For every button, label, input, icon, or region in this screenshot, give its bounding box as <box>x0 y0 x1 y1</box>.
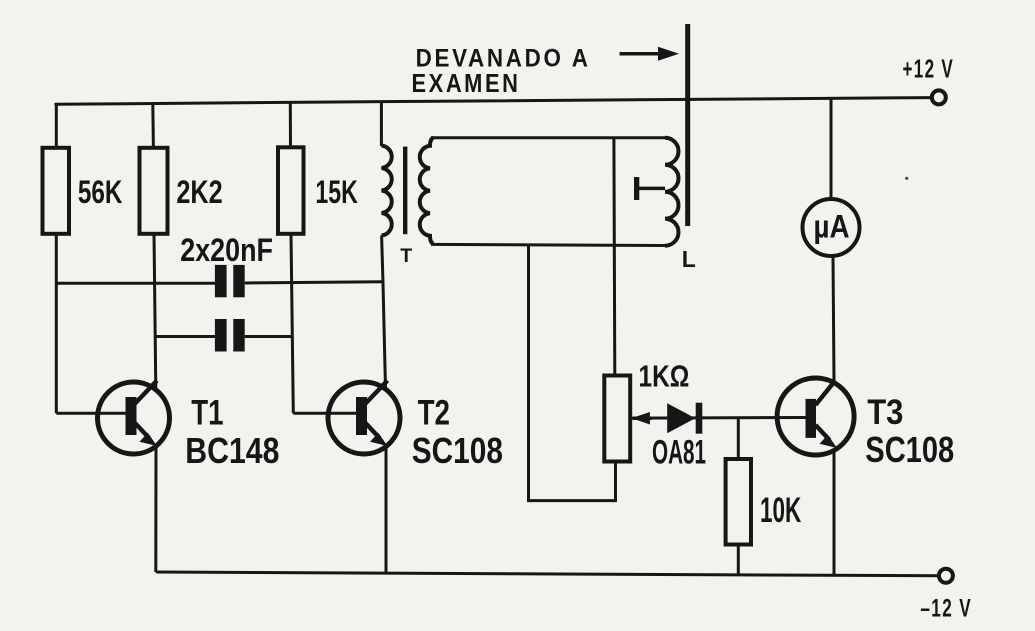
wire tank centre tap vertical to pot <box>612 138 616 376</box>
svg-text:L: L <box>682 246 696 272</box>
wire T1 base horizontal <box>56 412 126 415</box>
svg-text:T3: T3 <box>867 393 903 432</box>
resistor R 15K <box>278 147 304 234</box>
wire 15K bottom vertical <box>291 234 293 413</box>
wire 2K2 bottom vertical to T1 collector <box>154 234 156 389</box>
svg-text:T2: T2 <box>418 394 450 433</box>
svg-text:µA: µA <box>814 209 850 245</box>
svg-text:BC148: BC148 <box>185 430 279 471</box>
wire transformer primary top drop <box>380 102 383 146</box>
potentiometer 1K <box>604 376 652 462</box>
wire T1 emitter to bottom rail <box>154 447 157 572</box>
wire T2 emitter to bottom rail <box>385 447 388 573</box>
wire tank top line <box>431 136 665 139</box>
inductor L tap <box>634 177 665 200</box>
winding under test bar <box>685 24 690 226</box>
diode OA81 <box>667 403 702 434</box>
wire 56K bottom vertical <box>55 234 58 413</box>
capacitor C2 20nF <box>215 319 245 352</box>
terminal -12V <box>939 569 953 583</box>
resistor R 2K2 <box>140 148 168 234</box>
wire 56K top drop <box>55 104 58 148</box>
wire capacitor row2 left <box>155 335 215 338</box>
wire meter bottom to T3 collector <box>833 256 834 381</box>
wire primary bottom to T2 collector <box>382 236 386 390</box>
wire tank bottom to pot bottom L path <box>529 245 616 501</box>
inductor L coil <box>665 138 679 246</box>
wire capacitor row2 right <box>245 335 293 338</box>
wire 2K2 top drop <box>151 104 155 149</box>
svg-text:DEVANADO A: DEVANADO A <box>416 44 591 72</box>
svg-text:+12 V: +12 V <box>903 54 955 84</box>
wire T3 emitter to bottom rail <box>833 449 836 575</box>
svg-text:T: T <box>400 245 412 267</box>
wire tank bottom line <box>431 244 665 245</box>
wire bottom -12V rail <box>156 572 939 576</box>
svg-text:EXAMEN: EXAMEN <box>412 70 521 98</box>
wire 10K top <box>737 418 740 459</box>
transformer T secondary coil <box>420 138 434 244</box>
wire capacitor row1 right <box>245 282 383 283</box>
svg-text:OA81: OA81 <box>652 434 706 472</box>
meter uA <box>803 199 860 256</box>
wire 10K bottom <box>737 544 740 575</box>
svg-text:2x20nF: 2x20nF <box>180 232 273 268</box>
resistor 10K <box>726 459 751 545</box>
svg-text:SC108: SC108 <box>865 429 954 470</box>
resistor R 56K <box>43 148 70 234</box>
transistor T1 <box>98 381 170 455</box>
transistor T3 <box>777 378 854 455</box>
svg-text:10K: 10K <box>760 491 801 530</box>
svg-text:T1: T1 <box>191 394 223 433</box>
svg-text:56K: 56K <box>78 174 123 210</box>
svg-text:2K2: 2K2 <box>176 174 222 210</box>
wire pot to diode to T3 base <box>630 416 806 420</box>
terminal +12V <box>932 90 946 104</box>
capacitor C1 20nF <box>215 265 245 297</box>
svg-text:15K: 15K <box>315 174 357 210</box>
transistor T2 <box>328 381 400 455</box>
wire top +12V rail <box>55 98 933 105</box>
transformer T primary coil <box>382 146 392 236</box>
wire 15K top drop <box>289 103 292 148</box>
transformer T core <box>403 147 407 235</box>
wire T2 base horizontal <box>293 412 356 415</box>
svg-text:SC108: SC108 <box>412 430 503 471</box>
svg-text:1KΩ: 1KΩ <box>639 359 690 394</box>
svg-text:–12 V: –12 V <box>920 595 972 623</box>
wire capacitor row1 left <box>56 282 215 285</box>
arrow to winding <box>620 47 680 61</box>
wire meter top drop <box>830 98 833 200</box>
scan speck <box>905 177 908 180</box>
